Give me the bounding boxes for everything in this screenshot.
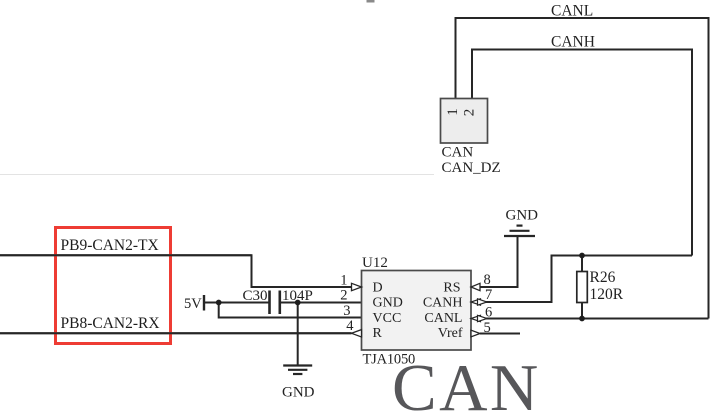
svg-text:CANL: CANL	[424, 311, 462, 326]
svg-text:VCC: VCC	[373, 311, 402, 326]
ground symbol at RS (inverted, bars above)	[504, 226, 535, 236]
wire C30 right plate to U12 pin2 (GND)	[281, 302, 362, 304]
wire PB9-CAN2-TX to U12 pin1 (D)	[0, 255, 352, 287]
pin arrow CANL (bidirectional)	[471, 315, 487, 321]
svg-text:C30: C30	[243, 288, 268, 304]
net label PB8-CAN2-RX	[61, 316, 160, 332]
svg-text:1: 1	[340, 273, 347, 289]
svg-text:D: D	[373, 281, 383, 296]
wire R26 top stub	[581, 256, 583, 272]
svg-text:5: 5	[484, 320, 491, 336]
pin arrow R (output, out of box)	[352, 330, 362, 337]
svg-text:GND: GND	[506, 208, 539, 224]
svg-text:CANL: CANL	[551, 3, 593, 20]
svg-text:R26: R26	[590, 269, 616, 286]
svg-text:Vref: Vref	[438, 326, 463, 341]
svg-text:CAN_DZ: CAN_DZ	[442, 160, 501, 176]
svg-text:2: 2	[340, 288, 347, 304]
junction dot CANH/R26	[579, 253, 585, 259]
pin arrow D (input, into box)	[352, 283, 362, 290]
annotation red box	[54, 226, 172, 344]
wire CANH net: top loop from connector pin2 to right riser	[472, 50, 692, 256]
junction dot 5V/VCC	[216, 300, 222, 306]
svg-text:GND: GND	[282, 385, 315, 401]
wire PB9 overlay	[0, 254, 252, 256]
net label PB9-CAN2-TX	[61, 238, 159, 254]
capacitor C30 plates	[270, 291, 280, 315]
IC U12 body	[362, 271, 472, 351]
svg-text:4: 4	[346, 318, 354, 334]
wire CANL net: top loop from connector pin1 to right riser	[456, 18, 709, 319]
port 5V terminator bar	[203, 295, 205, 311]
wire RS: U12 pin8 to ground riser	[480, 236, 518, 287]
wire 5V to C30 left plate	[204, 302, 269, 304]
svg-text:CANH: CANH	[423, 296, 463, 311]
svg-text:CAN: CAN	[442, 145, 474, 161]
wire CANL: U12 pin6 to right riser	[480, 318, 709, 320]
artifact dash top	[367, 0, 375, 3]
wire PB8 overlay	[0, 332, 352, 334]
artifact faint line	[0, 174, 434, 176]
svg-text:U12: U12	[362, 255, 388, 271]
svg-text:GND: GND	[373, 296, 403, 311]
svg-text:120R: 120R	[590, 286, 624, 303]
pin arrow RS (input)	[471, 283, 480, 290]
connector CAN_DZ box	[441, 99, 488, 144]
svg-text:5V: 5V	[184, 296, 202, 312]
svg-text:CANH: CANH	[551, 34, 595, 51]
wire R26 bottom stub	[581, 303, 583, 319]
wire ground branch down from C30	[297, 303, 299, 366]
svg-text:R: R	[373, 326, 383, 341]
watermark CAN	[392, 350, 541, 411]
svg-text:8: 8	[484, 272, 491, 288]
svg-text:7: 7	[485, 287, 492, 303]
svg-text:1: 1	[445, 108, 461, 116]
pin arrow Vref (output)	[471, 330, 480, 337]
resistor R26 body	[577, 272, 588, 303]
wire PB8-CAN2-RX to U12 pin4 (R)	[0, 332, 352, 334]
ground symbol below C30	[283, 366, 312, 375]
wire VCC branch to U12 pin3	[219, 303, 362, 318]
svg-text:3: 3	[343, 303, 350, 319]
junction dot C30/GND	[295, 300, 301, 306]
pin arrow CANH (bidirectional)	[471, 299, 487, 305]
svg-text:2: 2	[462, 109, 478, 117]
wire Vref stub: U12 pin5	[480, 333, 520, 335]
svg-text:RS: RS	[443, 281, 460, 296]
wire CANH: U12 pin7 to riser and horizontal run	[486, 256, 692, 303]
junction dot CANL/R26	[579, 316, 585, 322]
